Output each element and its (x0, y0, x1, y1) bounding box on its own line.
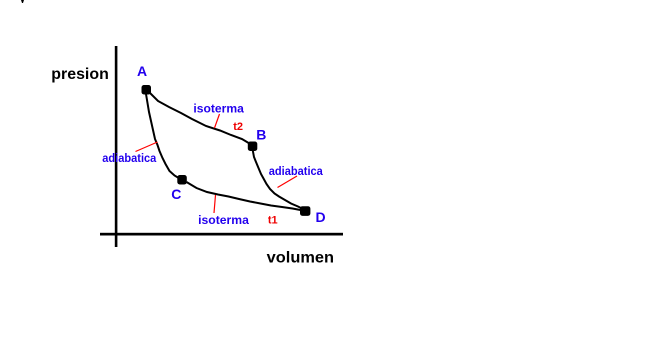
svg-text:t2: t2 (233, 121, 243, 133)
svg-text:t1: t1 (268, 215, 278, 227)
x-axis (volumen) (100, 233, 343, 236)
point A (142, 85, 152, 95)
leader line isoterma top (215, 114, 220, 128)
y-axis (presion) (115, 46, 118, 247)
svg-text:adiabatica: adiabatica (269, 164, 323, 178)
curve A-B isoterma t2 (149, 92, 252, 145)
svg-text:volumen: volumen (267, 250, 334, 267)
curve A-C adiabatica (146, 94, 182, 180)
stray mark top-left (21, 0, 24, 3)
leader line adiabatica right (278, 176, 298, 188)
svg-text:D: D (316, 209, 326, 225)
point C (177, 175, 187, 185)
leader line adiabatica left (136, 142, 158, 152)
svg-text:isoterma: isoterma (198, 215, 249, 227)
point D (300, 206, 310, 216)
svg-text:presion: presion (51, 66, 109, 83)
leader line isoterma bottom (214, 195, 216, 213)
point B (248, 142, 257, 152)
svg-text:isoterma: isoterma (193, 104, 244, 116)
svg-text:C: C (171, 186, 181, 202)
svg-text:B: B (256, 126, 266, 142)
svg-text:adiabatica: adiabatica (102, 151, 156, 165)
curve B-D adiabatica (253, 149, 306, 210)
curve C-D isoterma t1 (187, 182, 304, 211)
svg-text:A: A (137, 63, 147, 79)
